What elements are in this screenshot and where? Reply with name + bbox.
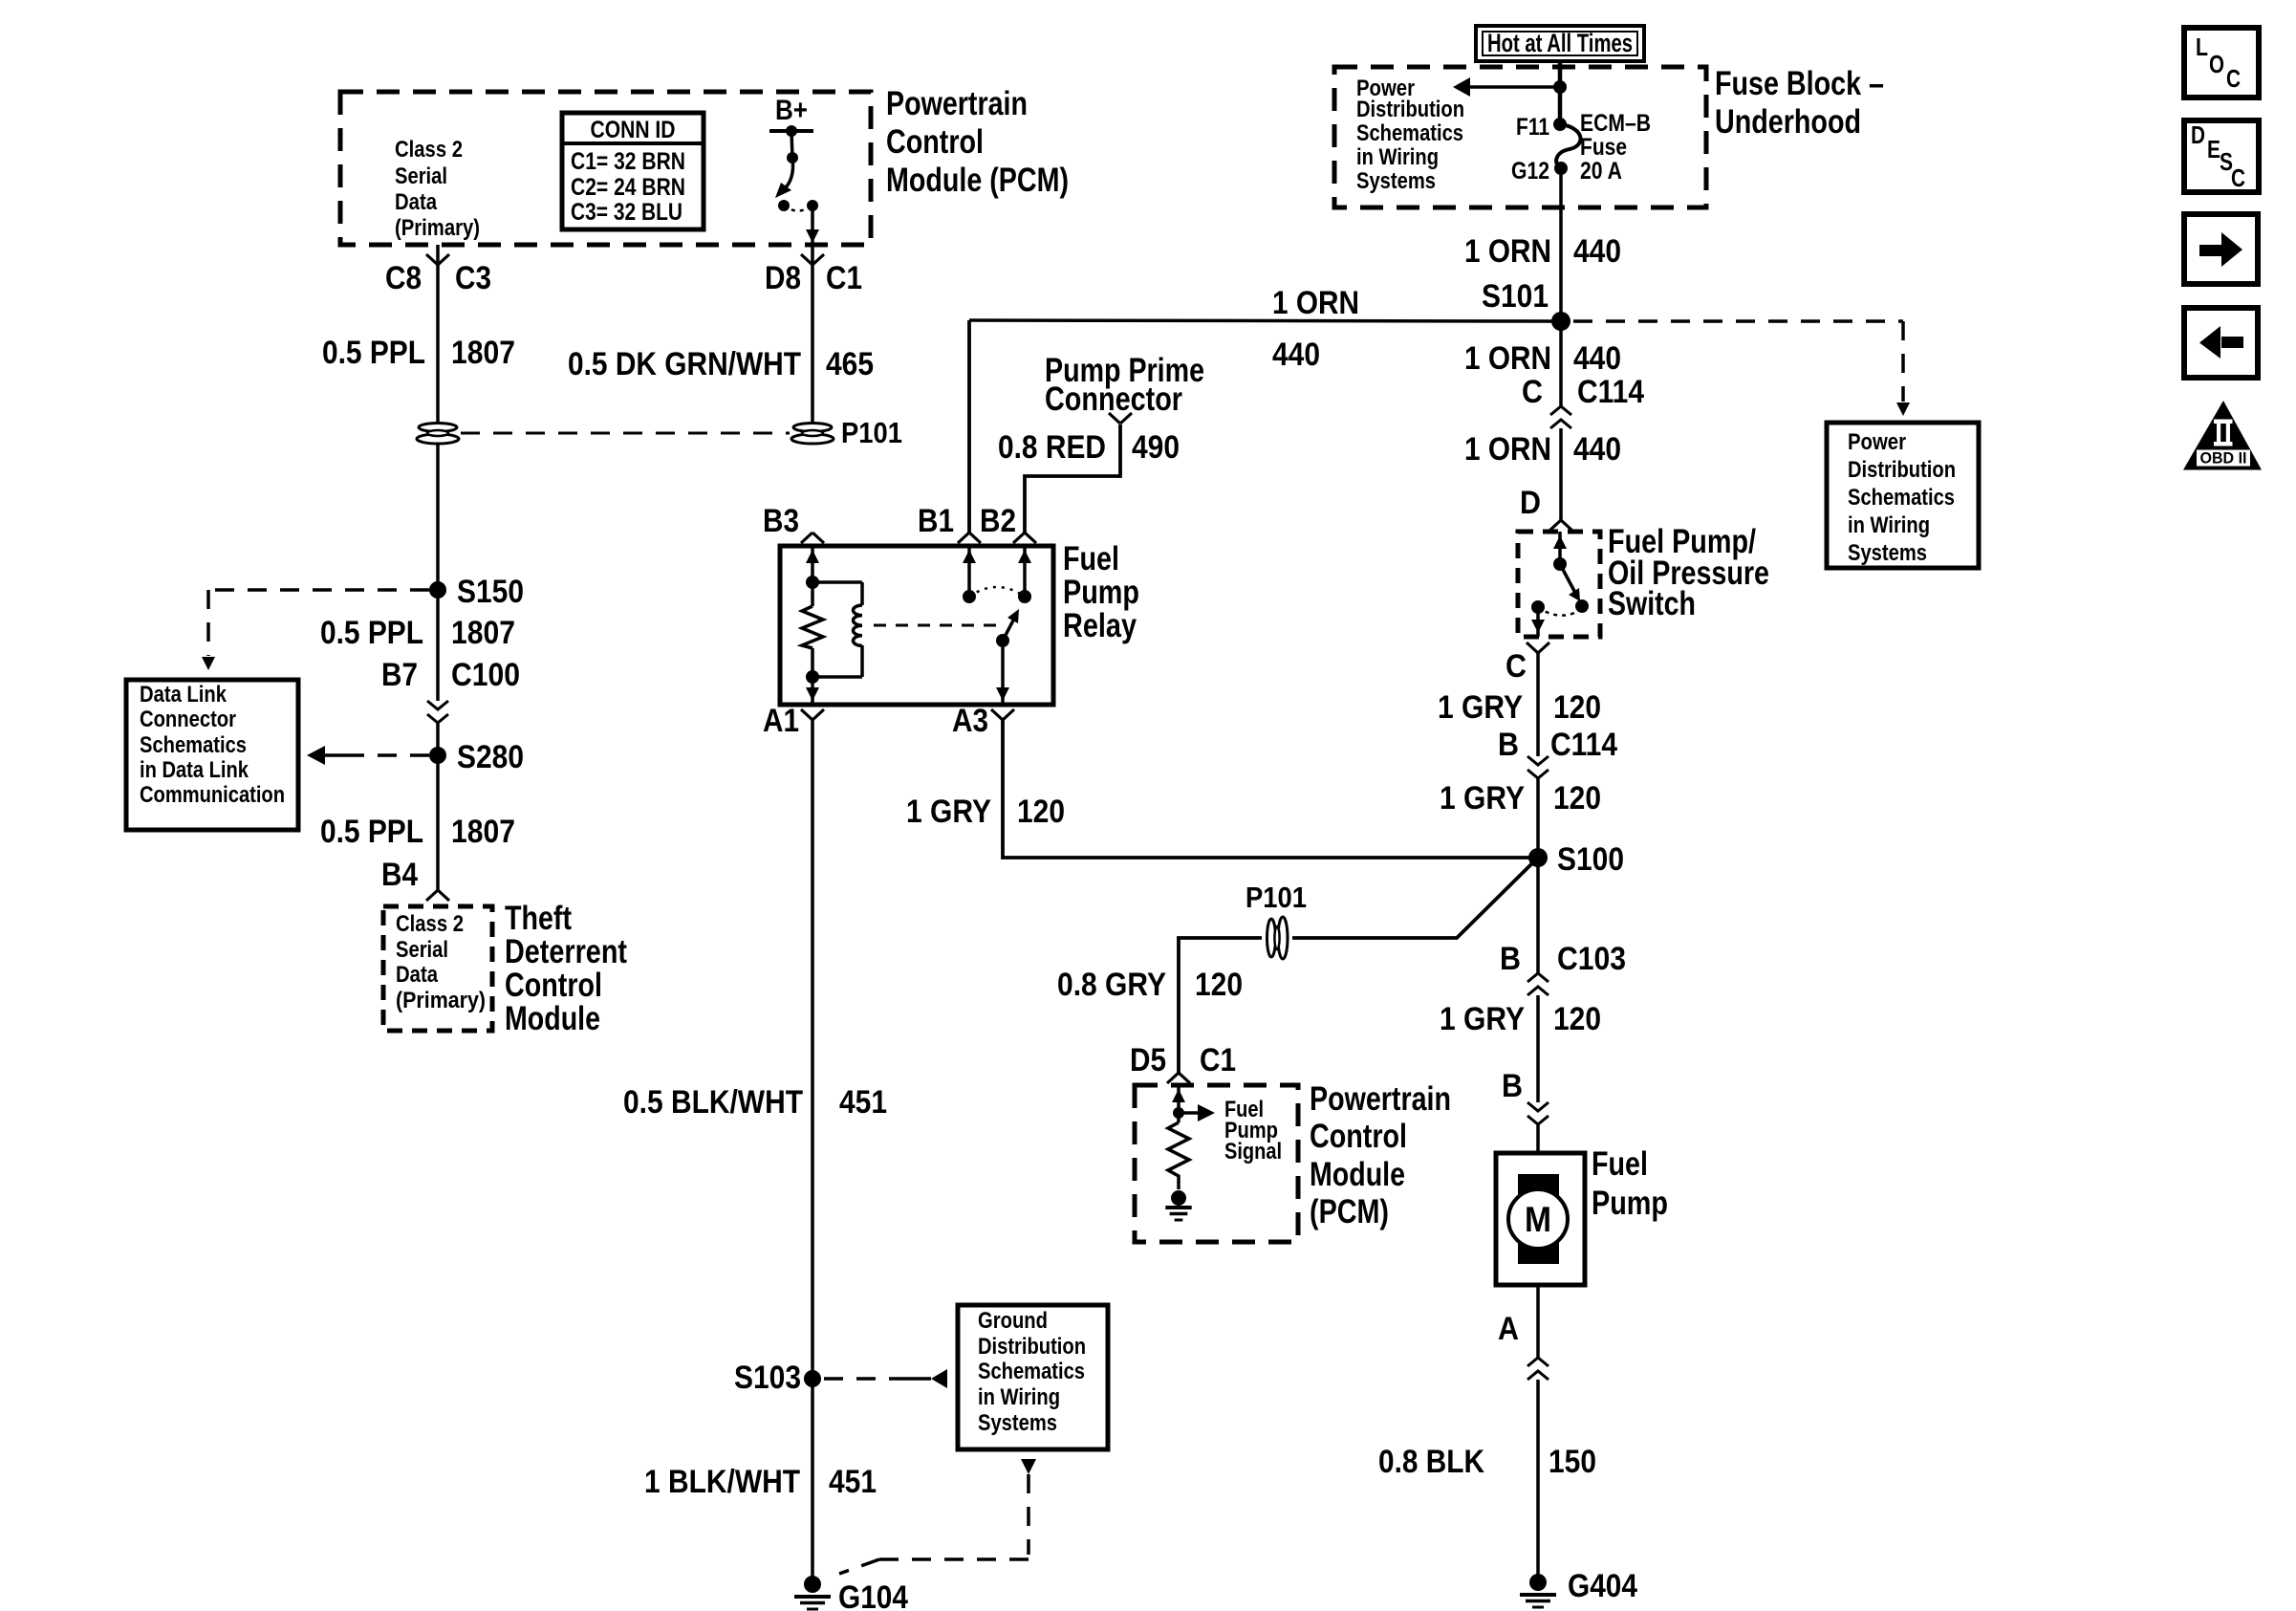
arrow feed to power distribution <box>1470 85 1560 89</box>
wire B+ switch to pin D8 <box>811 206 814 245</box>
svg-text:Fuse: Fuse <box>1580 134 1627 161</box>
switch dashed arc <box>1538 607 1579 616</box>
relay pin A3 internal stub <box>1001 641 1005 705</box>
svg-text:C: C <box>2231 163 2245 192</box>
svg-text:Deterrent: Deterrent <box>505 933 627 970</box>
svg-text:Systems: Systems <box>978 1410 1057 1436</box>
wire S103 to G104 (1 BLK/WHT 451) <box>811 1379 814 1584</box>
svg-text:in Data Link: in Data Link <box>140 757 249 783</box>
connector P101 pass-through left <box>417 434 459 444</box>
svg-text:D: D <box>1520 485 1541 521</box>
wire A1 to S103 (0.5 BLK/WHT 451) <box>811 720 814 1379</box>
svg-text:S280: S280 <box>457 739 524 775</box>
svg-text:Control: Control <box>505 967 602 1004</box>
svg-text:C103: C103 <box>1557 941 1626 977</box>
icon back arrow box <box>2184 308 2258 378</box>
pin fork D on switch <box>1549 520 1561 531</box>
svg-text:C114: C114 <box>1577 374 1644 410</box>
svg-text:A1: A1 <box>763 703 799 739</box>
svg-text:A: A <box>1498 1311 1519 1347</box>
svg-text:0.5 PPL: 0.5 PPL <box>320 814 423 850</box>
module PCM top dashed box <box>340 92 871 245</box>
svg-text:C3: C3 <box>455 260 491 296</box>
svg-text:1 GRY: 1 GRY <box>1440 780 1525 816</box>
svg-text:120: 120 <box>1553 780 1601 816</box>
svg-text:in Wiring: in Wiring <box>1848 512 1930 538</box>
switch internal top stub <box>1558 532 1562 564</box>
svg-text:C: C <box>1505 648 1527 685</box>
wire P101 to S150/S280 (0.5 PPL) <box>436 443 440 701</box>
svg-text:Fuse Block –: Fuse Block – <box>1715 65 1884 102</box>
wire hot feed into fuse <box>1558 61 1563 124</box>
svg-text:Distribution: Distribution <box>978 1334 1086 1360</box>
relay node bottom <box>806 670 819 684</box>
switch left contact <box>1531 600 1545 614</box>
inline connector C114-B chevrons <box>1527 756 1549 765</box>
wire A3 to S100 (1 GRY 120) <box>1003 720 1529 858</box>
svg-text:A3: A3 <box>952 703 988 739</box>
wire fuse to S101 (1 ORN 440) <box>1559 168 1563 406</box>
wire into fuel pump <box>1536 1124 1540 1153</box>
svg-text:150: 150 <box>1549 1444 1596 1480</box>
svg-text:Underhood: Underhood <box>1715 103 1861 141</box>
svg-text:Class 2: Class 2 <box>395 137 463 163</box>
svg-text:F11: F11 <box>1516 114 1549 141</box>
svg-text:490: 490 <box>1132 429 1180 466</box>
svg-text:Ground: Ground <box>978 1308 1048 1334</box>
dashed tie between P101 halves <box>461 432 790 435</box>
svg-text:C1: C1 <box>1200 1042 1236 1078</box>
svg-text:S103: S103 <box>734 1360 801 1396</box>
svg-text:C3= 32 BLU: C3= 32 BLU <box>571 199 682 226</box>
svg-text:440: 440 <box>1272 337 1320 373</box>
component Fuel Pump Relay box <box>780 546 1053 705</box>
svg-text:B1: B1 <box>918 503 954 539</box>
fuel pump signal arrow <box>1179 1111 1198 1115</box>
svg-text:1 ORN: 1 ORN <box>1464 431 1551 468</box>
pin fork pump prime connector <box>1109 413 1120 424</box>
svg-text:C100: C100 <box>451 657 520 693</box>
svg-text:Theft: Theft <box>505 900 572 937</box>
svg-text:440: 440 <box>1573 233 1621 270</box>
wire switch to C114-B (1 GRY 120) <box>1536 653 1540 756</box>
wire to S100 (1 GRY 120) <box>1536 778 1540 858</box>
wire P101 to PCM D5 (0.8 GRY 120) <box>1179 938 1262 1073</box>
connector P101 pass-through (PCM branch) <box>1278 917 1288 959</box>
svg-text:G12: G12 <box>1511 158 1549 185</box>
svg-text:Serial: Serial <box>396 937 448 963</box>
svg-text:B: B <box>1502 1068 1523 1104</box>
svg-text:Systems: Systems <box>1356 168 1436 194</box>
svg-text:(PCM): (PCM) <box>1310 1193 1389 1230</box>
wire B1 from S101 (1 ORN 440) <box>967 320 971 533</box>
relay coil suppressor resistor <box>811 582 814 606</box>
inline connector C103 chevrons <box>1527 973 1549 982</box>
svg-text:Powertrain: Powertrain <box>1310 1080 1451 1118</box>
svg-text:1 ORN: 1 ORN <box>1272 285 1359 321</box>
svg-text:(Primary): (Primary) <box>395 215 480 241</box>
svg-text:Distribution: Distribution <box>1356 97 1464 122</box>
pin fork C below switch <box>1527 642 1538 653</box>
svg-text:B4: B4 <box>381 857 418 893</box>
svg-text:Connector: Connector <box>1045 381 1182 418</box>
relay switch arm <box>996 634 1009 647</box>
svg-text:440: 440 <box>1573 431 1621 468</box>
relay contact dotted arc <box>969 587 1025 597</box>
switch arm <box>1560 564 1575 593</box>
svg-text:1807: 1807 <box>451 814 515 850</box>
svg-text:Data: Data <box>396 962 439 988</box>
svg-text:B3: B3 <box>763 503 799 539</box>
svg-text:Serial: Serial <box>395 163 447 189</box>
module PCM bottom dashed box <box>1135 1085 1298 1242</box>
pin fork B1 <box>958 533 969 543</box>
svg-text:0.5 BLK/WHT: 0.5 BLK/WHT <box>623 1084 803 1121</box>
svg-text:E: E <box>2207 135 2220 163</box>
svg-text:Data: Data <box>395 189 438 215</box>
svg-text:Power: Power <box>1848 429 1906 455</box>
svg-text:Schematics: Schematics <box>140 732 247 758</box>
dashed path ground box to G104 <box>1021 1459 1036 1474</box>
wire C114 to switch (1 ORN 440) <box>1559 428 1563 520</box>
svg-text:0.8 GRY: 0.8 GRY <box>1057 967 1166 1003</box>
wire S100 to P101 branch <box>1292 858 1538 938</box>
svg-text:Switch: Switch <box>1608 585 1696 622</box>
module Theft Deterrent dashed box <box>383 906 492 1031</box>
svg-text:Pump: Pump <box>1063 574 1139 611</box>
svg-text:Distribution: Distribution <box>1848 457 1956 483</box>
svg-text:C1= 32 BRN: C1= 32 BRN <box>571 148 685 175</box>
inline connector pump B chevrons <box>1527 1102 1549 1111</box>
svg-text:Signal: Signal <box>1224 1139 1282 1165</box>
svg-text:P101: P101 <box>841 416 902 449</box>
svg-text:120: 120 <box>1195 967 1243 1003</box>
svg-text:Control: Control <box>886 123 984 161</box>
wire C3 to P101 (0.5 PPL 1807) <box>436 245 440 424</box>
wire C1 to P101 (0.5 DK GRN/WHT 465) <box>811 245 814 424</box>
svg-text:O: O <box>2209 50 2224 78</box>
tag Hot at All Times <box>1476 26 1644 61</box>
svg-text:CONN ID: CONN ID <box>591 117 676 143</box>
wire B2 from pump prime connector (0.8 RED 490) <box>1025 425 1120 533</box>
pin fork D8/C1 on PCM <box>801 254 812 265</box>
pin fork D5 on PCM <box>1167 1073 1179 1083</box>
svg-text:1807: 1807 <box>451 335 515 371</box>
svg-text:1807: 1807 <box>451 615 515 651</box>
svg-text:120: 120 <box>1017 794 1065 830</box>
PCM internal ground <box>1171 1190 1186 1206</box>
svg-text:ECM–B: ECM–B <box>1580 110 1651 137</box>
svg-text:C: C <box>2226 64 2241 93</box>
component Fuel Pump Oil Pressure Switch dashed box <box>1518 532 1600 637</box>
dashed branch S150 to Data Link box <box>208 588 429 592</box>
svg-text:Fuel: Fuel <box>1063 540 1119 577</box>
splice S280 <box>429 747 446 764</box>
svg-text:0.5 PPL: 0.5 PPL <box>320 615 423 651</box>
wire C103 to pump connector (1 GRY 120) <box>1536 995 1540 1102</box>
svg-text:1 GRY: 1 GRY <box>1438 689 1523 726</box>
svg-text:0.5 DK GRN/WHT: 0.5 DK GRN/WHT <box>568 346 801 382</box>
component Fuel Pump box <box>1496 1153 1585 1285</box>
ground G404 <box>1529 1574 1547 1591</box>
inline connector C100 chevrons <box>427 701 448 709</box>
svg-text:C: C <box>1522 374 1543 410</box>
PCM internal stub D5 <box>1177 1085 1180 1122</box>
svg-text:1 BLK/WHT: 1 BLK/WHT <box>644 1464 800 1500</box>
svg-text:M: M <box>1525 1200 1551 1239</box>
wire pump to A connector (0.8 BLK) <box>1536 1285 1540 1359</box>
svg-text:20 A: 20 A <box>1580 158 1622 185</box>
pin fork A1 <box>801 709 812 720</box>
svg-text:B: B <box>1498 727 1519 763</box>
svg-text:1 GRY: 1 GRY <box>1440 1001 1525 1037</box>
relay actuation dashed link <box>874 624 998 627</box>
svg-text:1 ORN: 1 ORN <box>1464 233 1551 270</box>
svg-text:L: L <box>2196 33 2208 61</box>
box Power Distribution Schematics (right) <box>1827 423 1979 568</box>
inline connector pump A chevrons <box>1527 1358 1549 1366</box>
box Ground Distribution Schematics <box>958 1305 1108 1449</box>
svg-text:in Wiring: in Wiring <box>978 1384 1060 1410</box>
module Fuse Block Underhood dashed box <box>1334 67 1706 207</box>
svg-text:Hot at All Times: Hot at All Times <box>1487 29 1633 57</box>
wire S100 to C103 (1 GRY 120) <box>1536 858 1540 974</box>
dashed branch S101 to power distribution box <box>1573 319 1903 323</box>
icon DESC box <box>2184 120 2259 192</box>
svg-text:D8: D8 <box>765 260 801 296</box>
svg-text:1 ORN: 1 ORN <box>1464 340 1551 377</box>
svg-text:P101: P101 <box>1245 881 1307 914</box>
svg-text:Data Link: Data Link <box>140 682 227 708</box>
connector P101 pass-through right <box>791 434 834 444</box>
svg-text:B7: B7 <box>381 657 418 693</box>
svg-text:Communication: Communication <box>140 782 285 808</box>
svg-text:Pump: Pump <box>1592 1185 1668 1222</box>
svg-text:C114: C114 <box>1550 727 1617 763</box>
svg-text:C1: C1 <box>826 260 862 296</box>
svg-text:120: 120 <box>1553 689 1601 726</box>
svg-text:Connector: Connector <box>140 707 236 732</box>
icon OBD II triangle <box>2183 401 2262 470</box>
pin fork C8/C3 on PCM <box>426 254 438 265</box>
pin fork B4 theft module <box>426 890 438 901</box>
svg-text:120: 120 <box>1553 1001 1601 1037</box>
svg-text:451: 451 <box>839 1084 887 1121</box>
dashed branch S280 to Data Link box <box>346 753 429 757</box>
svg-text:440: 440 <box>1573 340 1621 377</box>
splice S103 <box>804 1370 821 1387</box>
svg-text:OBD II: OBD II <box>2200 449 2247 468</box>
svg-text:Schematics: Schematics <box>1848 485 1955 511</box>
splice S100 <box>1528 848 1548 867</box>
svg-text:B2: B2 <box>980 503 1016 539</box>
svg-text:Class 2: Class 2 <box>396 911 464 937</box>
svg-text:451: 451 <box>829 1464 877 1500</box>
relay coil <box>812 580 862 584</box>
svg-text:Powertrain: Powertrain <box>886 85 1028 122</box>
svg-text:G404: G404 <box>1568 1568 1637 1604</box>
PCM internal resistor <box>1168 1122 1189 1189</box>
relay pin A1 internal stub <box>811 677 814 705</box>
pin fork A3 <box>991 709 1003 720</box>
svg-text:Control: Control <box>1310 1118 1407 1155</box>
icon LOC box <box>2184 28 2259 98</box>
splice S150 <box>429 581 446 599</box>
svg-text:in Wiring: in Wiring <box>1356 144 1439 170</box>
pin fork B3 <box>801 533 812 543</box>
svg-text:D5: D5 <box>1130 1042 1166 1078</box>
ground G104 <box>804 1576 821 1593</box>
svg-text:(Primary): (Primary) <box>396 988 486 1013</box>
svg-text:0.8 RED: 0.8 RED <box>998 429 1106 466</box>
CONN ID table <box>562 113 704 229</box>
svg-text:Schematics: Schematics <box>978 1359 1085 1384</box>
svg-text:S101: S101 <box>1482 278 1549 315</box>
svg-text:C8: C8 <box>385 260 422 296</box>
relay node top <box>806 576 819 589</box>
switch bottom stub <box>1536 607 1540 637</box>
svg-text:B+: B+ <box>775 95 808 126</box>
svg-text:1 GRY: 1 GRY <box>906 794 991 830</box>
relay pin B3 internal stub <box>811 546 814 582</box>
inline connector C114 chevrons <box>1550 406 1571 415</box>
svg-text:465: 465 <box>826 346 874 382</box>
svg-text:Module (PCM): Module (PCM) <box>886 162 1069 199</box>
wire C100 to S280/B4 <box>436 723 440 890</box>
pin fork B2 <box>1013 533 1025 543</box>
icon forward arrow box <box>2184 214 2258 284</box>
svg-text:S100: S100 <box>1557 841 1624 878</box>
svg-text:Schematics: Schematics <box>1356 120 1463 146</box>
relay pin B1 internal stub and contact <box>967 546 971 597</box>
fuse F11/G12 ECM-B 20A <box>1553 118 1567 131</box>
svg-text:D: D <box>2191 120 2205 149</box>
svg-text:Module: Module <box>1310 1156 1405 1193</box>
wire A to G404 (0.8 BLK 150) <box>1536 1380 1540 1580</box>
svg-text:Module: Module <box>505 1000 600 1037</box>
svg-text:G104: G104 <box>838 1579 908 1611</box>
wire S101 to relay B1 (1 ORN 440) <box>969 320 1561 321</box>
splice S101 <box>1551 312 1570 331</box>
relay pin B2 internal stub and contact <box>1023 546 1027 597</box>
svg-text:B: B <box>1500 941 1521 977</box>
box Data Link Connector Schematics <box>126 680 298 830</box>
B+ feed switch inside PCM <box>769 129 813 133</box>
dashed branch S103 to ground distribution box <box>824 1377 908 1381</box>
svg-text:Systems: Systems <box>1848 540 1927 566</box>
svg-text:0.5 PPL: 0.5 PPL <box>322 335 425 371</box>
svg-text:C2= 24 BRN: C2= 24 BRN <box>571 174 685 201</box>
svg-text:0.8 BLK: 0.8 BLK <box>1378 1444 1484 1480</box>
svg-text:Fuel: Fuel <box>1592 1145 1648 1183</box>
fuel pump motor <box>1518 1174 1559 1264</box>
svg-text:Relay: Relay <box>1063 607 1137 644</box>
svg-text:S150: S150 <box>457 574 524 610</box>
